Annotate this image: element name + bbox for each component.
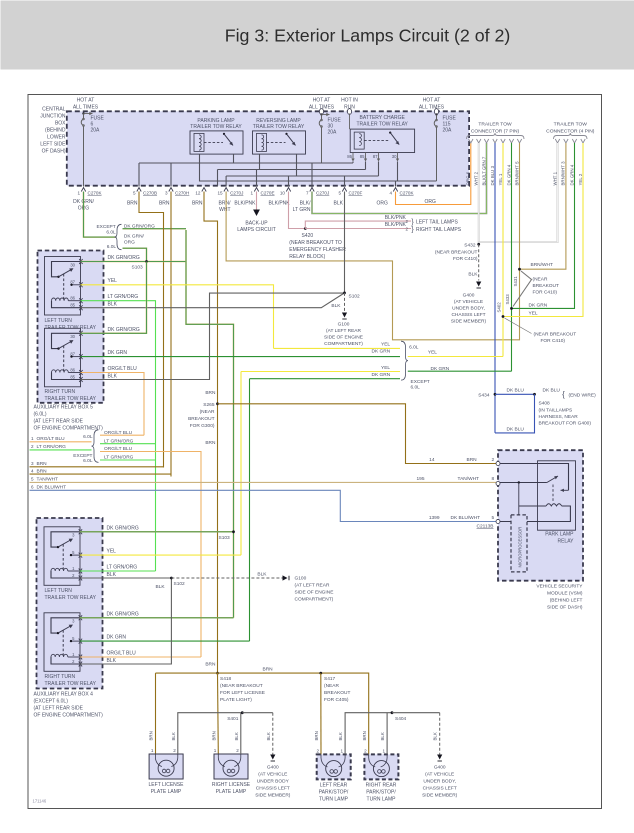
svg-text:LOWER: LOWER: [47, 135, 66, 141]
svg-text:(IN TAILLAMPS: (IN TAILLAMPS: [539, 408, 573, 414]
svg-text:TURN LAMP: TURN LAMP: [367, 797, 397, 803]
svg-text:YEL: YEL: [107, 549, 117, 555]
svg-text:85: 85: [360, 154, 365, 159]
svg-text:ALL TIMES: ALL TIMES: [73, 105, 99, 111]
wire DK GRN/ORG from CJB pin 1 C270K: [84, 192, 117, 238]
svg-text:BREAKOUT: BREAKOUT: [324, 690, 350, 696]
wire BRN S418 to S417 to right rear lamp: [218, 667, 369, 755]
splice S418 on BRN trunk: [156, 662, 265, 704]
svg-text:BRN: BRN: [205, 662, 216, 668]
svg-text:EXCEPT: EXCEPT: [411, 379, 430, 385]
ground G400 (park lamps): [422, 765, 458, 799]
svg-text:DK GRN/ORG: DK GRN/ORG: [108, 255, 140, 261]
wire BRN riser to left license lamp: [149, 673, 156, 754]
connector: trailer tow connector (4 pin): [546, 122, 595, 144]
wire BLK/PNK from CJB pin 10 to tail lamps: [289, 192, 462, 234]
except ORG/LT BLU to aux box 4: [100, 452, 201, 658]
svg-text:OF ENGINE COMPARTMENT): OF ENGINE COMPARTMENT): [34, 713, 104, 719]
svg-text:20A: 20A: [91, 128, 101, 134]
svg-text:5: 5: [133, 191, 136, 196]
VSM caption: [536, 584, 583, 611]
svg-text:85: 85: [70, 303, 75, 308]
fuse 115 20A: [434, 109, 456, 181]
svg-text:BRN: BRN: [127, 201, 138, 207]
svg-text:DK GRN/ORG: DK GRN/ORG: [107, 611, 139, 617]
except LT GRN/ORG stub: [100, 459, 156, 461]
svg-text:BLK: BLK: [257, 572, 267, 578]
svg-text:(NEAR BREAKOUT: (NEAR BREAKOUT: [534, 332, 577, 338]
svg-text:BLK: BLK: [107, 572, 117, 578]
wire DK GRN/ORG box5 left-turn pin30, splice S103: [81, 255, 187, 271]
svg-text:(NEAR BREAKOUT TO: (NEAR BREAKOUT TO: [289, 240, 342, 246]
svg-text:3: 3: [165, 191, 168, 196]
svg-text:LEFT TURN: LEFT TURN: [45, 588, 73, 594]
svg-text:BLK/PNK: BLK/PNK: [385, 222, 407, 228]
svg-text:BRN/WHT 5: BRN/WHT 5: [514, 161, 519, 186]
label: HOT AT ALL TIMES (fuse 115): [419, 98, 445, 111]
svg-text:LEFT SIDE: LEFT SIDE: [40, 142, 66, 148]
svg-text:TRAILER TOW RELAY: TRAILER TOW RELAY: [253, 124, 305, 130]
relay: parking lamp trailer tow relay: [190, 118, 243, 154]
svg-text:CENTRAL: CENTRAL: [42, 107, 66, 113]
svg-text:6: 6: [31, 485, 34, 490]
wire DK GRN/ORG box4 left-turn pin3, splice S103: [80, 525, 235, 541]
svg-text:(AT LEFT REAR: (AT LEFT REAR: [295, 583, 330, 589]
wire BRN/WHT from CJB pin 15 C270J: [226, 192, 519, 340]
wire BLK from CJB pin 5 C270F to S102: [344, 192, 346, 293]
svg-text:G400: G400: [434, 765, 446, 771]
svg-text:PARK LAMP: PARK LAMP: [545, 532, 574, 538]
svg-text:PLATE LAMP: PLATE LAMP: [216, 789, 247, 795]
svg-text:LT GRN/ORG: LT GRN/ORG: [107, 565, 138, 571]
svg-text:DK GRN: DK GRN: [529, 303, 548, 309]
svg-text:S404: S404: [395, 716, 407, 722]
svg-text:YEL: YEL: [428, 350, 437, 356]
svg-text:BRN: BRN: [205, 440, 216, 446]
lamp: right license plate lamp: [214, 748, 248, 779]
svg-text:C270J: C270J: [230, 191, 243, 196]
svg-text:5: 5: [31, 477, 34, 482]
splice S420 callout: [289, 233, 346, 260]
ground G100 (left rear engine compartment, lower): [295, 576, 334, 603]
auxiliary relay box 5 (6.0L) dashed enclosure: [38, 251, 104, 403]
svg-text:(NEAR BREAKOUT: (NEAR BREAKOUT: [435, 250, 478, 256]
svg-text:G100: G100: [338, 322, 350, 328]
svg-text:(AT VEHICLE: (AT VEHICLE: [454, 299, 483, 305]
left edge wire 1 ORG/LT BLU: [30, 436, 92, 442]
wire DK BLU 7-pin to S434: [494, 143, 496, 433]
variant brace merging YEL/DK GRN rows: [401, 341, 450, 391]
svg-text:BLK/PNK: BLK/PNK: [385, 215, 407, 221]
svg-text:RIGHT LICENSE: RIGHT LICENSE: [212, 782, 251, 788]
svg-text:(AT LEFT REAR: (AT LEFT REAR: [326, 328, 361, 334]
svg-text:YEL: YEL: [381, 342, 390, 348]
svg-text:FOR LEFT LICENSE: FOR LEFT LICENSE: [220, 690, 265, 696]
lamp: left license plate lamp: [149, 748, 183, 779]
svg-text:OF ENGINE COMPARTMENT): OF ENGINE COMPARTMENT): [34, 426, 104, 432]
merged DK GRN to S433: [408, 370, 512, 372]
wire DK GRN box4 right-turn pin5: [80, 635, 250, 641]
svg-text:PLATE LAMP: PLATE LAMP: [151, 789, 182, 795]
svg-text:10: 10: [280, 191, 286, 196]
splice S432 and BLK to G400: [435, 243, 481, 289]
svg-text:EXCEPT: EXCEPT: [96, 224, 115, 230]
svg-text:TRAILER TOW RELAY: TRAILER TOW RELAY: [356, 122, 408, 128]
svg-text:BLK: BLK: [171, 732, 176, 740]
connector: trailer tow connector (7 pin): [467, 122, 525, 144]
svg-text:C2113B: C2113B: [477, 524, 494, 530]
vehicle security module (VSM) dashed enclosure: [498, 450, 583, 581]
relay: right turn trailer tow relay (aux box 4): [44, 613, 82, 672]
svg-text:SIDE MEMBER): SIDE MEMBER): [422, 793, 458, 799]
svg-text:SIDE OF ENGINE: SIDE OF ENGINE: [295, 590, 334, 596]
svg-text:WHT: WHT: [219, 207, 230, 213]
svg-text:S434: S434: [478, 393, 490, 399]
svg-text:C270B: C270B: [143, 191, 157, 196]
microprocessor dashed box: [511, 507, 527, 572]
svg-text:BLK: BLK: [433, 732, 438, 740]
svg-text:(NEAR: (NEAR: [324, 683, 339, 689]
svg-text:20A: 20A: [328, 130, 338, 136]
svg-text:CHASSIS LEFT: CHASSIS LEFT: [256, 786, 290, 792]
svg-text:5: 5: [492, 515, 495, 521]
svg-text:FOR C410): FOR C410): [453, 256, 478, 262]
svg-text:WHT 2: WHT 2: [474, 171, 479, 185]
svg-text:ORG/LT BLU: ORG/LT BLU: [107, 651, 137, 657]
aux box 4 caption: [34, 692, 104, 719]
svg-text:S401: S401: [227, 716, 239, 722]
svg-text:TRAILER TOW: TRAILER TOW: [478, 122, 512, 128]
svg-text:6.0L: 6.0L: [83, 434, 93, 440]
svg-text:15: 15: [217, 191, 223, 196]
svg-text:G100: G100: [295, 576, 307, 582]
svg-text:YEL: YEL: [529, 311, 538, 317]
wire ORG/LT BLU box4 right-turn pin1: [80, 651, 201, 658]
svg-text:2: 2: [31, 444, 34, 449]
wire DK GRN/ORG box4 right-turn pin3: [80, 611, 234, 618]
svg-text:(NEAR: (NEAR: [533, 277, 548, 283]
7-pin wire labels: [466, 156, 520, 185]
svg-text:DK BLU/WHT: DK BLU/WHT: [451, 515, 481, 521]
svg-text:RELAY BLOCK): RELAY BLOCK): [289, 254, 325, 260]
svg-text:UNDER BODY,: UNDER BODY,: [452, 306, 485, 312]
svg-text:AUXILIARY RELAY BOX 4: AUXILIARY RELAY BOX 4: [34, 692, 94, 698]
svg-text:EMERGENCY FLASHER: EMERGENCY FLASHER: [289, 247, 346, 253]
svg-text:S103: S103: [132, 265, 144, 271]
svg-text:BREAKOUT: BREAKOUT: [533, 283, 559, 289]
svg-text:S417: S417: [324, 676, 336, 682]
wire YEL 6.0L row to brace: [274, 342, 401, 355]
svg-text:RELAY: RELAY: [557, 539, 574, 545]
auxiliary relay box 4 (except 6.0L) dashed enclosure: [37, 518, 103, 689]
svg-text:PARK/STOP/: PARK/STOP/: [366, 790, 396, 796]
wire BLK box5 right-turn pin85: [81, 293, 345, 379]
svg-text:BACK-UP: BACK-UP: [245, 221, 268, 227]
svg-text:LT GRN/ORG: LT GRN/ORG: [108, 294, 139, 300]
svg-text:2: 2: [173, 748, 176, 753]
wire YEL box4 left-turn pin5: [80, 549, 241, 556]
svg-text:BRN: BRN: [467, 457, 478, 463]
wire YEL 7-pin to S402 / 4-pin: [497, 143, 584, 357]
svg-text:LEFT REAR: LEFT REAR: [320, 783, 348, 789]
svg-text:FOR C405): FOR C405): [324, 697, 349, 703]
svg-text:FOR C410): FOR C410): [541, 338, 566, 344]
DK BLU splice S434 / S408 end wire: [478, 388, 596, 433]
wire DK GRN ORG 6.0L branch: [123, 248, 147, 261]
wire BLK/PNK from CJB pin 1 C270E to back-up lamps circuit: [237, 192, 276, 234]
svg-text:HARNESS, NEAR: HARNESS, NEAR: [539, 414, 579, 420]
svg-text:DK GRN: DK GRN: [372, 349, 391, 355]
svg-text:BRN: BRN: [263, 667, 274, 673]
svg-text:BLK: BLK: [234, 732, 239, 740]
svg-text:SIDE OF ENGINE: SIDE OF ENGINE: [324, 335, 363, 341]
svg-text:BLK/: BLK/: [300, 201, 311, 207]
svg-text:6.0L: 6.0L: [107, 244, 117, 250]
svg-text:C270K: C270K: [88, 191, 103, 196]
svg-text:BLK/LT GRN 7: BLK/LT GRN 7: [481, 156, 486, 185]
svg-text:VEHICLE SECURITY: VEHICLE SECURITY: [536, 584, 583, 590]
svg-text:LEFT TAIL LAMPS: LEFT TAIL LAMPS: [416, 220, 458, 226]
svg-text:DK GRN/: DK GRN/: [124, 234, 145, 240]
svg-text:6.0L: 6.0L: [409, 345, 419, 351]
svg-text:MICROPROCESSOR: MICROPROCESSOR: [518, 527, 523, 568]
relay: reversing lamp trailer tow relay: [253, 118, 306, 154]
svg-text:(END WIRE): (END WIRE): [569, 393, 597, 399]
svg-text:TAN/WHT: TAN/WHT: [37, 477, 59, 483]
svg-text:S432: S432: [464, 243, 476, 249]
CJB caption: [40, 107, 66, 155]
svg-text:4: 4: [389, 191, 392, 196]
wire BRN from CJB pin 5 C270B: [139, 192, 164, 468]
svg-text:DK BLU 3: DK BLU 3: [490, 165, 495, 185]
svg-text:7: 7: [306, 191, 309, 196]
svg-text:BLK: BLK: [380, 732, 385, 740]
svg-text:BRN: BRN: [37, 461, 48, 467]
svg-text:DK BLU: DK BLU: [507, 388, 525, 394]
svg-text:86: 86: [347, 154, 352, 159]
svg-text:BLK: BLK: [334, 201, 344, 207]
svg-text:(AT VEHICLE: (AT VEHICLE: [258, 772, 287, 778]
svg-text:1399: 1399: [429, 515, 440, 521]
left edge wire 5 TAN/WHT to VSM: [30, 476, 499, 483]
svg-text:BRN: BRN: [212, 731, 217, 740]
svg-text:BREAKOUT FOR G400): BREAKOUT FOR G400): [539, 421, 592, 427]
svg-text:DK BLU: DK BLU: [543, 388, 561, 394]
svg-text:LT GRN: LT GRN: [293, 207, 311, 213]
svg-text:RIGHT TAIL LAMPS: RIGHT TAIL LAMPS: [416, 227, 462, 233]
wire BLK park lamps to splice S404: [338, 711, 406, 754]
wire DK GRN box5 right-turn pin87: [81, 350, 401, 357]
svg-text:PARK/STOP/: PARK/STOP/: [319, 790, 349, 796]
svg-text:C270J: C270J: [316, 191, 329, 196]
svg-text:HOT AT: HOT AT: [313, 98, 331, 104]
svg-text:C270K: C270K: [400, 191, 415, 196]
svg-text:ORG: ORG: [377, 201, 389, 207]
svg-text:RIGHT REAR: RIGHT REAR: [366, 783, 397, 789]
svg-text:1: 1: [214, 748, 217, 753]
svg-text:HOT AT: HOT AT: [423, 98, 441, 104]
svg-text:BLK: BLK: [266, 732, 271, 740]
svg-text:1: 1: [341, 748, 344, 753]
DK GRN/ORG trunk down: [186, 230, 234, 618]
svg-text:171146: 171146: [33, 799, 47, 804]
lamp: right rear park/stop/turn lamp: [364, 748, 398, 779]
svg-text:S431: S431: [513, 276, 518, 287]
left edge wire 4 BRN: [30, 468, 172, 474]
relay: battery charge trailer tow relay: [347, 109, 414, 153]
svg-text:87: 87: [70, 351, 75, 356]
ground G100 (left rear engine compartment): [324, 322, 363, 348]
svg-text:87: 87: [70, 280, 75, 285]
svg-text:BLK: BLK: [108, 302, 118, 308]
svg-text:TURN LAMP: TURN LAMP: [319, 797, 349, 803]
label: HOT AT ALL TIMES (fuse 6): [73, 98, 99, 111]
svg-text:ORG: ORG: [425, 199, 437, 205]
dashed BLK S401 to ground G400: [242, 713, 275, 761]
title bar: [1, 1, 634, 70]
svg-text:85: 85: [70, 374, 75, 379]
svg-text:AUXILIARY RELAY BOX 5: AUXILIARY RELAY BOX 5: [34, 405, 94, 411]
svg-text:LEFT TURN: LEFT TURN: [45, 318, 73, 324]
wire BRN S265 to VSM pin 2: [218, 404, 499, 464]
svg-text:OF DASH): OF DASH): [42, 149, 66, 155]
svg-text:1: 1: [250, 191, 253, 196]
label: HOT AT ALL TIMES (fuse 30): [309, 98, 335, 111]
svg-text:FOR G300): FOR G300): [190, 423, 215, 429]
central junction box (CJB): [67, 111, 469, 185]
svg-text:BRN/WHT 3: BRN/WHT 3: [561, 161, 566, 186]
svg-text:BRN: BRN: [205, 390, 216, 396]
wire BRN from CJB pin 3 C270H: [170, 192, 172, 477]
svg-text:COMPARTMENT): COMPARTMENT): [324, 341, 363, 347]
svg-text:BLK/PNK: BLK/PNK: [234, 201, 256, 207]
svg-text:LEFT LICENSE: LEFT LICENSE: [149, 782, 185, 788]
svg-text:LT GRN/ORG: LT GRN/ORG: [37, 444, 67, 450]
label: HOT IN RUN: [341, 98, 358, 111]
wire DK GRN except-6.0L row (from aux box 4): [250, 372, 401, 641]
CJB internal wiring buses: [139, 154, 437, 187]
splice on box4 BLK, dashed BLK to ground G100: [156, 572, 290, 591]
fuse 6 20A: [81, 112, 104, 187]
callout NEAR BREAKOUT FOR C410 (S431/S433): [513, 271, 559, 307]
left edge wire 2 LT GRN/ORG: [30, 444, 92, 450]
wire LT GRN/ORG box5 left-turn pin86: [81, 294, 156, 571]
svg-text:BLK/PNK: BLK/PNK: [269, 201, 291, 207]
relay: left turn trailer tow relay (aux box 5): [45, 257, 83, 316]
svg-text:TRAILER TOW RELAY: TRAILER TOW RELAY: [45, 681, 97, 687]
svg-text:BLK: BLK: [107, 658, 117, 664]
svg-text:1: 1: [31, 436, 34, 441]
svg-text:TAN/WHT: TAN/WHT: [458, 476, 480, 482]
svg-text:5: 5: [338, 191, 341, 196]
svg-text:195: 195: [416, 476, 424, 482]
wire BLK box4 right-turn pin2: [80, 578, 172, 664]
svg-text:30: 30: [392, 154, 397, 159]
svg-text:(BEHIND: (BEHIND: [45, 128, 66, 134]
svg-text:ORG/LT BLU: ORG/LT BLU: [37, 436, 66, 442]
variant brace splitting to 6.0L / EXCEPT 6.0L branches: [73, 430, 133, 464]
svg-text:BLK: BLK: [468, 272, 478, 278]
VSM internal wiring: [498, 464, 570, 522]
svg-text:DK GRN: DK GRN: [108, 350, 128, 356]
relay: right turn trailer tow relay (aux box 5): [45, 328, 83, 387]
svg-text:BRN: BRN: [37, 468, 48, 474]
svg-text:DK GRN/ORG: DK GRN/ORG: [107, 525, 139, 531]
svg-text:BRN: BRN: [192, 201, 203, 207]
wire DK GRN/ORG box5 right-turn pin30: [81, 262, 147, 334]
svg-text:BRN: BRN: [314, 731, 319, 740]
diagram frame: [28, 95, 602, 809]
battery relay pin stubs 86 85 87 30: [347, 153, 399, 162]
svg-text:(NEAR BREAKOUT: (NEAR BREAKOUT: [220, 683, 263, 689]
svg-text:87: 87: [373, 154, 378, 159]
svg-text:DK BLU/WHT: DK BLU/WHT: [37, 485, 67, 491]
relay: left turn trailer tow relay (aux box 4): [44, 527, 82, 586]
wire DK GRN/ORG except branch: [123, 228, 187, 230]
svg-text:8: 8: [492, 476, 495, 482]
svg-text:ORG/LT BLU: ORG/LT BLU: [108, 366, 138, 372]
svg-text:S265: S265: [203, 402, 215, 408]
svg-text:EXCEPT: EXCEPT: [73, 453, 92, 459]
svg-text:TRAILER TOW: TRAILER TOW: [554, 122, 588, 128]
left edge wire 3 BRN: [30, 461, 164, 467]
svg-text:C270E: C270E: [261, 191, 275, 196]
svg-text:2: 2: [316, 748, 319, 753]
svg-text:6.0L: 6.0L: [411, 385, 421, 391]
svg-text:G400: G400: [267, 765, 279, 771]
svg-text:SIDE MEMBER): SIDE MEMBER): [255, 793, 291, 799]
svg-text:TRAILER TOW RELAY: TRAILER TOW RELAY: [45, 396, 97, 402]
svg-text:1: 1: [151, 748, 154, 753]
svg-text:BRN: BRN: [362, 731, 367, 740]
svg-text:S420: S420: [302, 233, 314, 239]
svg-text:RIGHT TURN: RIGHT TURN: [45, 674, 76, 680]
svg-text:30: 30: [70, 334, 75, 339]
svg-text:HOT IN: HOT IN: [341, 98, 358, 104]
svg-text:BOX: BOX: [55, 121, 66, 127]
svg-text:YEL: YEL: [108, 278, 118, 284]
wire BRN from CJB pin 12 (trunk to S265/S418): [204, 192, 218, 674]
svg-text:BRN/WHT: BRN/WHT: [531, 262, 553, 268]
svg-text:TRAILER TOW RELAY: TRAILER TOW RELAY: [45, 595, 97, 601]
svg-text:(BEHIND LEFT: (BEHIND LEFT: [550, 598, 583, 604]
svg-text:2: 2: [236, 748, 239, 753]
wire BLK box5 left-turn pin85: [81, 293, 345, 308]
svg-text:CHASSIS LEFT: CHASSIS LEFT: [451, 312, 485, 318]
svg-text:LAMPS CIRCUIT: LAMPS CIRCUIT: [237, 227, 276, 233]
svg-text:4: 4: [31, 468, 34, 473]
svg-text:BLK: BLK: [338, 732, 343, 740]
svg-text:20A: 20A: [443, 128, 453, 134]
svg-text:(6.0L): (6.0L): [34, 412, 47, 418]
svg-text:UNDER BODY: UNDER BODY: [257, 779, 290, 785]
svg-text:UNDER BODY,: UNDER BODY,: [423, 779, 456, 785]
svg-text:DK GRN/ORG: DK GRN/ORG: [108, 327, 140, 333]
wire YEL box5 left-turn pin87: [81, 278, 274, 348]
svg-text:(AT LEFT REAR SIDE: (AT LEFT REAR SIDE: [34, 706, 84, 712]
svg-text:PLATE LIGHT): PLATE LIGHT): [220, 697, 252, 703]
splice S102 and BLK to ground G100: [331, 292, 360, 320]
wire BRN trunk to right license lamp: [212, 673, 219, 754]
wire BRN riser left park lamp: [314, 673, 321, 754]
svg-text:SIDE OF DASH): SIDE OF DASH): [547, 605, 583, 611]
svg-text:(AT LEFT REAR SIDE: (AT LEFT REAR SIDE: [34, 419, 84, 425]
svg-text:14: 14: [429, 457, 435, 463]
svg-text:BRN: BRN: [159, 201, 170, 207]
svg-text:S402: S402: [497, 302, 502, 313]
ground G400 (chassis left side member): [451, 293, 487, 325]
6.0L ORG/LT BLU stub: [100, 434, 144, 436]
